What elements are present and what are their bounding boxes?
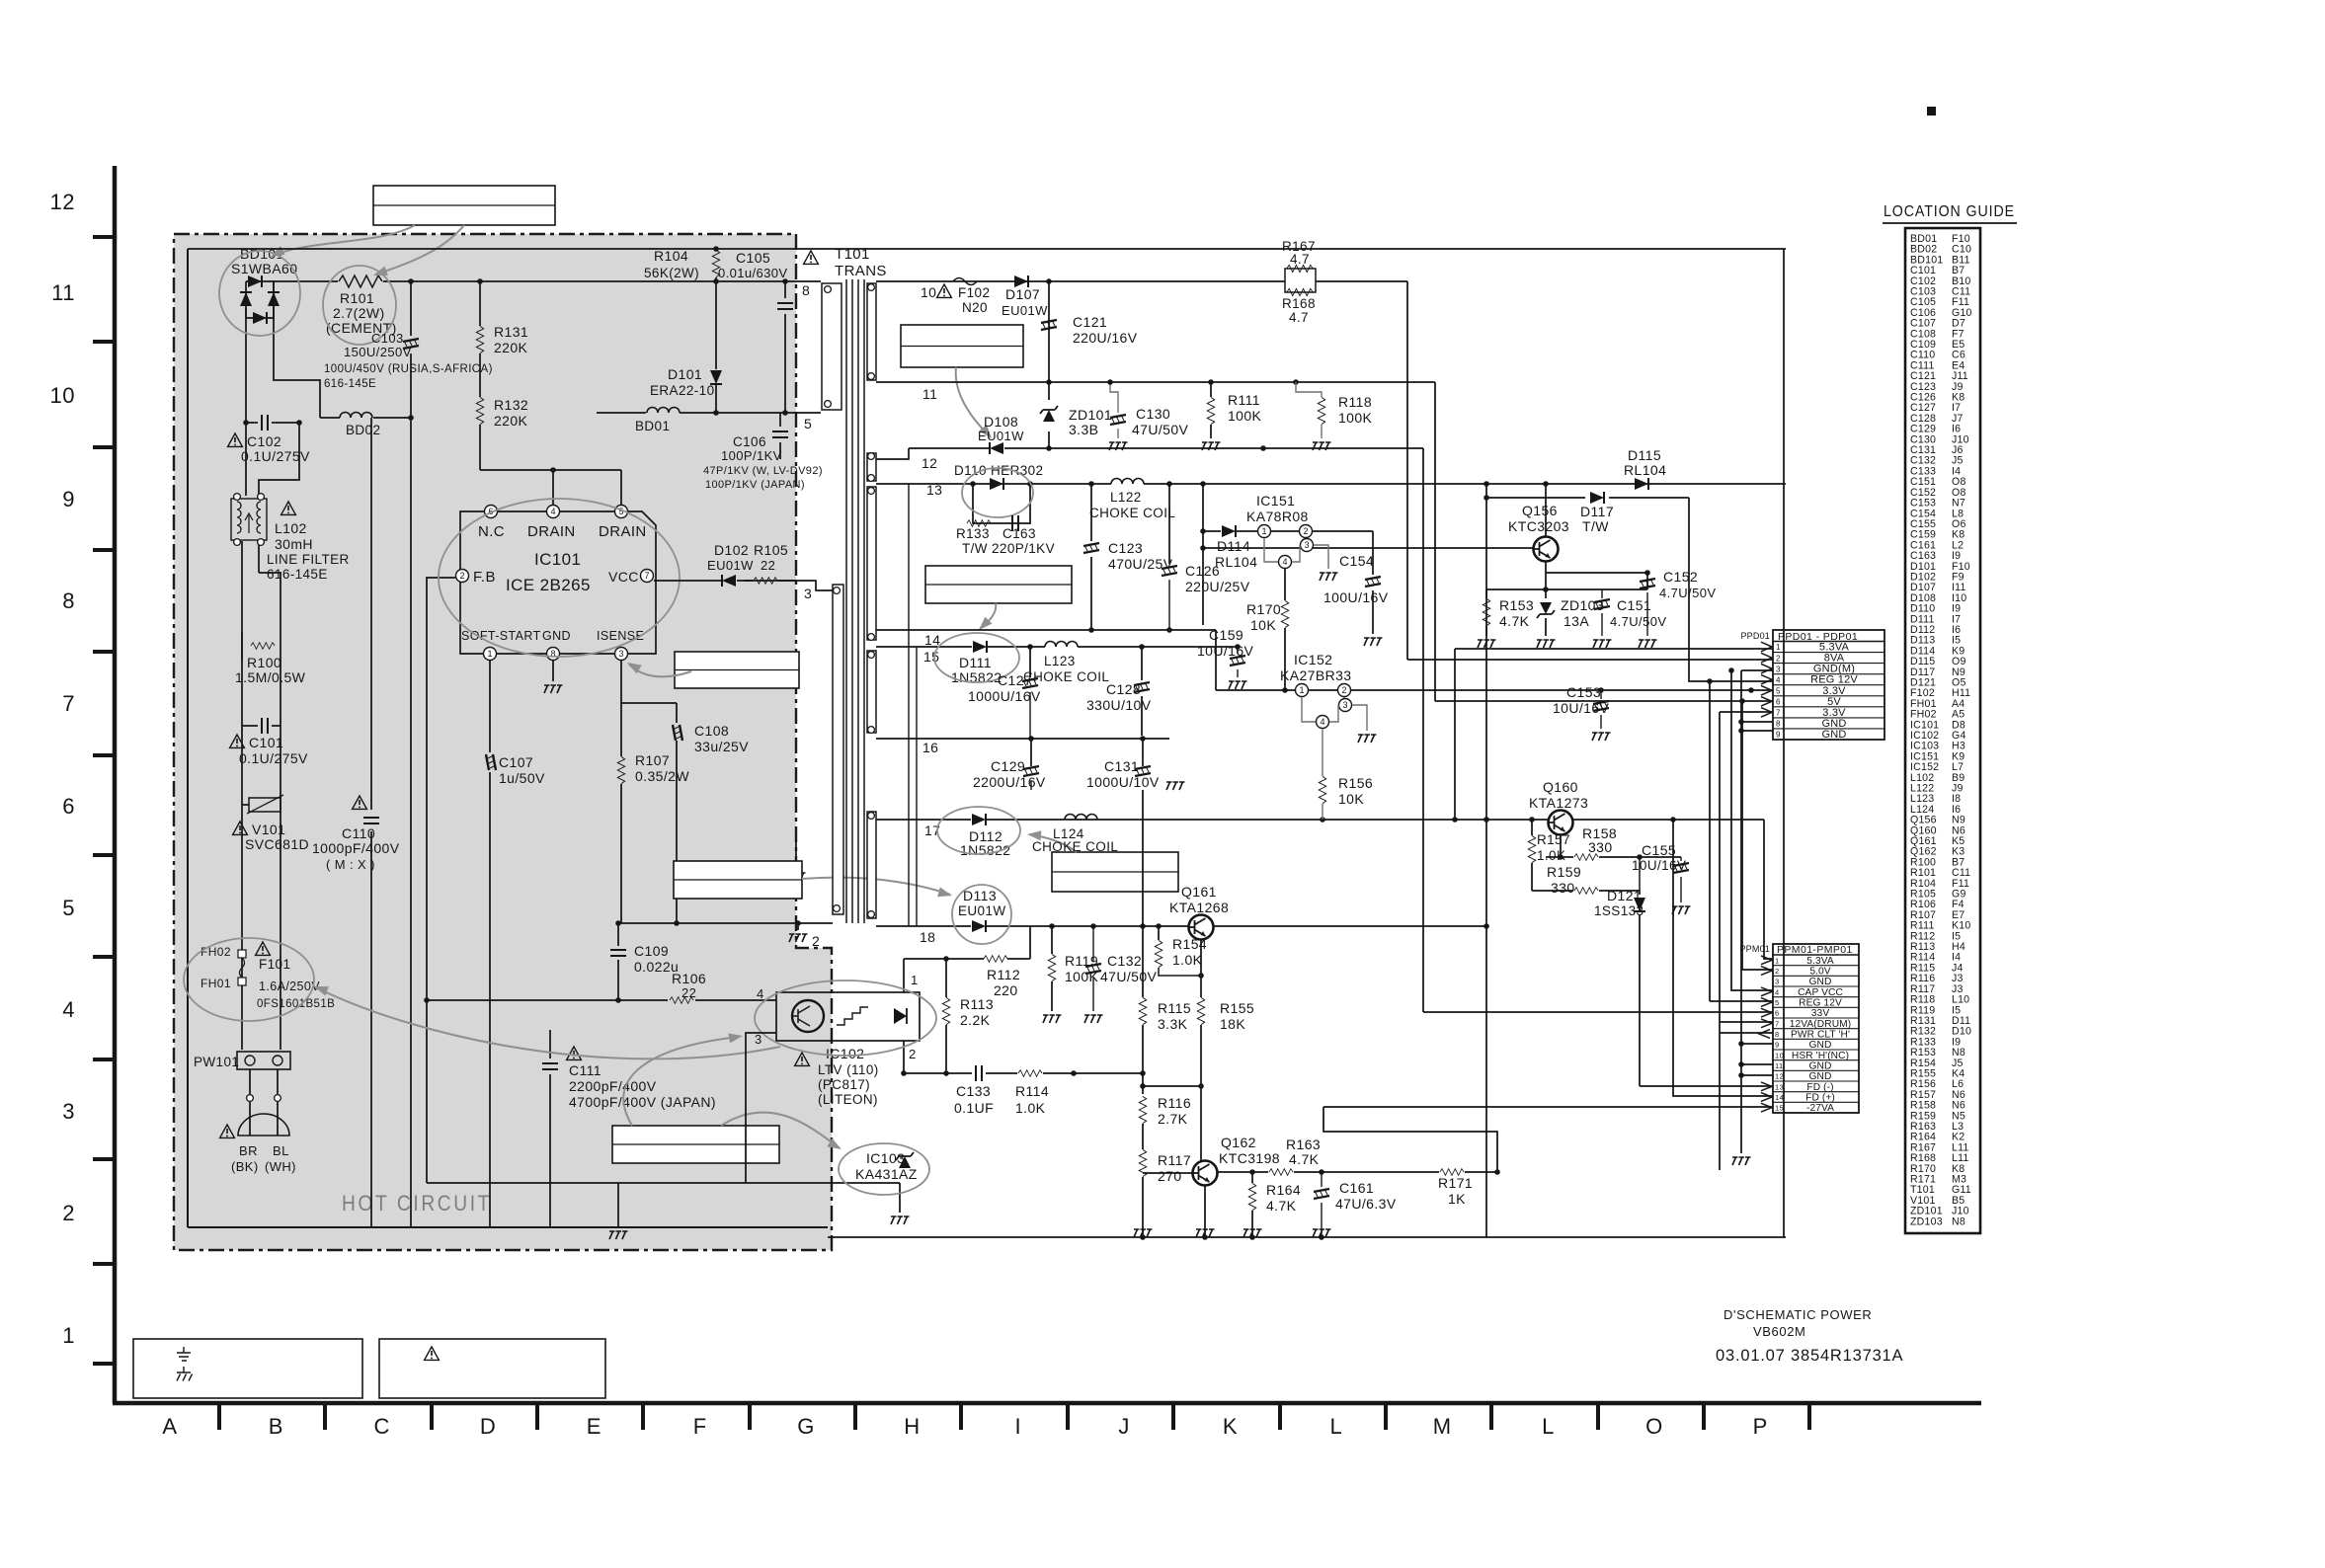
svg-text:B: B [269, 1414, 283, 1439]
svg-text:3: 3 [1304, 540, 1309, 550]
svg-text:R105: R105 [754, 542, 788, 558]
svg-text:C107: C107 [499, 754, 533, 770]
svg-text:D111: D111 [959, 655, 992, 670]
zener ZD101 [1040, 406, 1112, 437]
svg-text:V101: V101 [252, 822, 285, 837]
svg-text:VB602M: VB602M [1753, 1324, 1805, 1339]
svg-text:1K: 1K [1448, 1191, 1466, 1207]
transformer pin numbers right [920, 284, 942, 945]
svg-text:7: 7 [1775, 1019, 1780, 1028]
svg-text:5.3VA: 5.3VA [1806, 956, 1834, 967]
svg-text:2: 2 [1341, 685, 1346, 695]
wire: vertical x1441 [1422, 448, 1424, 1012]
svg-text:33u/25V: 33u/25V [694, 739, 749, 754]
svg-text:IC151: IC151 [1256, 493, 1295, 509]
svg-text:R111: R111 [1228, 392, 1260, 408]
svg-text:1: 1 [1299, 685, 1304, 695]
capacitor C126 [1162, 563, 1250, 630]
wire: Q156 base wire [1200, 545, 1533, 551]
capacitor C103 [324, 331, 493, 390]
resistor R118 [1296, 382, 1373, 450]
capacitor C101 [230, 718, 308, 766]
svg-text:BR: BR [239, 1143, 258, 1158]
wire: drain feed y476 [480, 467, 621, 505]
highlight ellipse BD101 [219, 251, 300, 336]
svg-text:R117: R117 [1158, 1152, 1191, 1168]
svg-text:L102: L102 [275, 520, 307, 536]
svg-text:2.2K: 2.2K [960, 1012, 991, 1028]
svg-text:CHOKE COIL: CHOKE COIL [1023, 669, 1109, 684]
resistor R131 [476, 281, 528, 397]
wire: PPD01 pin7 [1720, 712, 1773, 1170]
connector PPD01 rows [1773, 642, 1884, 741]
svg-text:F: F [693, 1414, 707, 1439]
IC103 shunt regulator [427, 1150, 918, 1224]
capacitor C105 [718, 250, 793, 413]
wire: y1100 link [1143, 1083, 1204, 1089]
svg-text:PPD01: PPD01 [1740, 631, 1770, 641]
highlight ellipse IC101 [439, 499, 680, 657]
diode D110 [954, 463, 1043, 490]
wire: top rail y252 [188, 248, 1786, 250]
svg-text:220U/16V: 220U/16V [1073, 330, 1138, 346]
svg-text:HSR 'H'(NC): HSR 'H'(NC) [1792, 1051, 1849, 1061]
svg-text:C: C [374, 1414, 390, 1439]
svg-text:3: 3 [755, 1032, 762, 1047]
svg-text:ZD101: ZD101 [1069, 407, 1112, 423]
wire: R159 branch [1532, 854, 1643, 891]
capacitor C110 [312, 796, 400, 872]
capacitor C163 [992, 515, 1055, 556]
connector PPM01-PMP01 [1739, 944, 1859, 1113]
diode D115 [1624, 447, 1666, 490]
svg-text:3: 3 [62, 1099, 75, 1124]
resistor R114 [1015, 1070, 1049, 1116]
wire: IC152 input wire y699 [1216, 687, 1773, 693]
wire: pin13 rail y490 [876, 481, 1786, 487]
svg-text:220U/25V: 220U/25V [1185, 579, 1250, 594]
svg-text:D113: D113 [963, 888, 997, 903]
svg-text:7: 7 [62, 691, 75, 716]
wire: PPM01 pin4 [1728, 667, 1773, 990]
svg-text:4.7U/50V: 4.7U/50V [1610, 614, 1666, 629]
svg-text:11: 11 [1775, 1061, 1784, 1070]
resistor R156 [1319, 729, 1373, 820]
svg-text:8: 8 [802, 282, 810, 298]
resistor R171 [1438, 1169, 1473, 1207]
jumper BD01 [635, 408, 680, 434]
svg-text:PPM01: PPM01 [1739, 944, 1770, 954]
capacitor C151 [1593, 589, 1666, 648]
gray arrow to D112 [1029, 834, 1077, 852]
svg-text:4: 4 [1775, 987, 1780, 996]
svg-text:15: 15 [1775, 1104, 1784, 1113]
wire: vertical x1473 [1454, 649, 1456, 820]
svg-text:( M : X ): ( M : X ) [326, 857, 375, 872]
wire: PPM01 pin6 33V [1423, 1011, 1773, 1013]
svg-text:L122: L122 [1110, 490, 1142, 505]
wire: hot bottom stubs [795, 839, 797, 869]
wire: pin16 rail y748 [876, 736, 1169, 742]
legend box 1 [133, 1339, 362, 1398]
wire: bottom rail y1253 [828, 1234, 1786, 1240]
svg-text:4.7K: 4.7K [1499, 613, 1530, 629]
capacitor C111 [542, 1030, 716, 1227]
svg-text:R131: R131 [494, 324, 528, 340]
connector PPD01 arrows [1761, 642, 1772, 717]
wire: pin11 rail y387 [876, 379, 1435, 385]
svg-text:8: 8 [62, 588, 75, 613]
svg-text:5.0V: 5.0V [1809, 967, 1830, 978]
svg-text:1: 1 [911, 973, 919, 987]
svg-text:R112: R112 [987, 967, 1020, 982]
svg-text:5: 5 [618, 507, 623, 516]
wire: pin10 rail y285 right [876, 278, 1407, 284]
zener ZD103 [1537, 589, 1604, 648]
svg-text:L: L [1329, 1414, 1342, 1439]
svg-text:R164: R164 [1266, 1182, 1301, 1198]
svg-text:C108: C108 [694, 723, 729, 739]
svg-text:220P/1KV: 220P/1KV [992, 541, 1055, 556]
svg-text:GND: GND [1809, 1071, 1832, 1082]
svg-text:D121: D121 [1607, 888, 1642, 903]
svg-text:R153: R153 [1499, 597, 1534, 613]
svg-text:GND: GND [1809, 977, 1832, 987]
wire: primary pin3 wire [796, 581, 833, 590]
svg-text:3: 3 [804, 586, 812, 601]
svg-text:47U/6.3V: 47U/6.3V [1335, 1196, 1397, 1212]
svg-text:220K: 220K [494, 340, 528, 355]
hot circuit inner border [188, 249, 828, 1227]
bridge rectifier BD101 [231, 246, 297, 324]
svg-text:N.C: N.C [478, 523, 505, 540]
capacitor C155 [1632, 842, 1691, 914]
wire: FB column x432 [424, 578, 455, 1183]
svg-text:KA78R08: KA78R08 [1246, 509, 1309, 524]
resistor R170 [1246, 569, 1289, 690]
svg-text:15: 15 [923, 649, 939, 665]
wire: vertical x1505 [1483, 484, 1489, 1237]
svg-text:LOCATION GUIDE: LOCATION GUIDE [1884, 203, 2015, 220]
fuse F101 [200, 942, 335, 1010]
transistor Q161 [1169, 884, 1229, 940]
svg-text:LTV (110): LTV (110) [818, 1062, 879, 1077]
svg-text:270: 270 [1158, 1168, 1182, 1184]
ground under IC101 gnd pin [544, 685, 563, 693]
svg-text:4.7K: 4.7K [1289, 1151, 1320, 1167]
frame: row ticks [93, 237, 113, 1364]
IC IC151 KA78R08 [1246, 493, 1338, 581]
svg-text:10: 10 [1775, 1051, 1784, 1059]
capacitor C109 [610, 920, 679, 1000]
svg-text:(LITEON): (LITEON) [818, 1092, 878, 1107]
svg-text:4.7K: 4.7K [1266, 1198, 1297, 1214]
svg-text:ZD103: ZD103 [1910, 1215, 1943, 1227]
jumper BD02 [340, 413, 380, 437]
wire: R115 column x1157 [1140, 790, 1146, 1237]
wire: opto feedback y971 [904, 926, 1030, 992]
svg-text:P: P [1753, 1414, 1768, 1439]
page mark square [1927, 107, 1936, 116]
svg-text:9: 9 [1776, 731, 1781, 740]
svg-text:0.1U/275V: 0.1U/275V [239, 750, 308, 766]
svg-text:C153: C153 [1566, 684, 1601, 700]
svg-text:IC102: IC102 [826, 1046, 864, 1061]
capacitor C131 [1086, 758, 1160, 790]
wire: REG12V vertical x1731 [1709, 681, 1711, 1001]
svg-text:3: 3 [1775, 978, 1780, 986]
svg-text:330: 330 [1588, 839, 1613, 855]
wire: C103 column x416 [408, 281, 414, 1227]
hot circuit gray region [174, 234, 832, 1250]
svg-text:33V: 33V [1811, 1008, 1830, 1019]
svg-text:10U/16V: 10U/16V [1553, 700, 1610, 716]
resistor R113 [942, 959, 994, 1073]
wire: y1187 R163 R171 rail [1217, 1107, 1500, 1175]
gray arrow to IC102 [623, 1037, 739, 1126]
svg-text:4.7U/50V: 4.7U/50V [1659, 586, 1716, 600]
resistor R101 [326, 275, 397, 336]
svg-text:EU01W: EU01W [1002, 303, 1048, 318]
wire: D110 loop R133 C163 [970, 481, 1033, 523]
svg-text:R106: R106 [672, 971, 706, 986]
svg-text:D108: D108 [984, 414, 1018, 430]
transformer secondary windings [867, 283, 876, 918]
resistor R117 [1139, 1149, 1191, 1184]
svg-text:4: 4 [1320, 717, 1324, 727]
resistor R163 [1269, 1137, 1321, 1175]
resistor R116 [1139, 1095, 1191, 1127]
wire: bridge right leg [274, 308, 320, 418]
diode D117 [1580, 492, 1614, 534]
wire: C102 rung [243, 420, 302, 426]
gray arrow to BD101 [273, 225, 415, 256]
svg-text:EU01W: EU01W [707, 558, 754, 573]
svg-text:4: 4 [1776, 675, 1781, 684]
svg-text:1000U/16V: 1000U/16V [968, 688, 1041, 704]
svg-text:R157: R157 [1537, 832, 1570, 847]
IC IC101 ICE 2B265 [456, 506, 657, 661]
svg-text:BL: BL [273, 1143, 289, 1158]
capacitor C129 [973, 758, 1046, 790]
svg-text:1.5M/0.5W: 1.5M/0.5W [235, 669, 306, 685]
wire: C133 R114 wire y1087 [901, 1041, 1146, 1076]
highlight ellipse IC103 [839, 1143, 929, 1195]
svg-text:M: M [1433, 1414, 1452, 1439]
svg-text:C101: C101 [249, 735, 283, 750]
svg-text:4700pF/400V (JAPAN): 4700pF/400V (JAPAN) [569, 1094, 716, 1110]
wire: C110 column x376 [370, 418, 372, 1227]
svg-text:(PC817): (PC817) [818, 1077, 870, 1092]
svg-text:47P/1KV (W, LV-DV92): 47P/1KV (W, LV-DV92) [703, 465, 823, 477]
svg-text:C130: C130 [1136, 406, 1170, 422]
transformer primary winding 8-5 [802, 282, 842, 431]
svg-text:IC103: IC103 [866, 1150, 905, 1166]
svg-text:C121: C121 [1073, 314, 1107, 330]
svg-text:100K: 100K [1228, 408, 1262, 424]
svg-text:2200pF/400V: 2200pF/400V [569, 1078, 657, 1094]
connector PPM01 arrows [1759, 956, 1772, 1112]
svg-text:N20: N20 [962, 300, 988, 315]
svg-text:4: 4 [757, 986, 764, 1001]
svg-text:LINE FILTER: LINE FILTER [267, 552, 350, 567]
svg-text:R116: R116 [1158, 1095, 1191, 1111]
svg-text:4: 4 [1282, 557, 1287, 567]
svg-text:F101: F101 [259, 957, 290, 972]
diode D107 [1002, 275, 1048, 318]
svg-text:100P/1KV: 100P/1KV [721, 448, 782, 463]
wire: vertical x1453 [1434, 382, 1436, 701]
svg-text:C154: C154 [1339, 553, 1374, 569]
svg-text:11: 11 [922, 386, 937, 402]
svg-text:150U/250V: 150U/250V [344, 345, 412, 359]
wire: IC102 pin3 down [746, 1033, 776, 1183]
svg-text:14: 14 [924, 632, 940, 648]
svg-text:KTC3203: KTC3203 [1508, 518, 1569, 534]
svg-text:1SS133: 1SS133 [1594, 903, 1644, 918]
resistor R111 [1202, 382, 1262, 450]
svg-text:DRAIN: DRAIN [527, 523, 576, 540]
svg-text:6: 6 [1775, 1009, 1780, 1018]
svg-text:2: 2 [459, 571, 464, 581]
svg-text:RL104: RL104 [1215, 554, 1257, 570]
svg-text:5: 5 [1775, 998, 1780, 1007]
svg-text:REG 12V: REG 12V [1799, 998, 1842, 1009]
capacitor C127 [968, 672, 1041, 739]
diode D101 [650, 366, 722, 413]
capacitor C159 [1197, 627, 1254, 689]
svg-text:5: 5 [804, 416, 812, 431]
svg-text:1: 1 [1776, 643, 1781, 652]
svg-text:L: L [1542, 1414, 1555, 1439]
legend box 2 [379, 1339, 605, 1398]
svg-text:C132: C132 [1107, 953, 1142, 969]
diode D108 [978, 414, 1024, 454]
resistor R153 [1478, 589, 1534, 648]
wire: vertical x1710 to REG12V [1689, 498, 1773, 684]
IC102 optocoupler [755, 973, 920, 1107]
highlight ellipse D111 [934, 633, 1019, 682]
svg-text:C127: C127 [998, 672, 1032, 688]
inductor L122 [1089, 479, 1175, 521]
wire: Q162 base wire [1143, 1172, 1193, 1174]
svg-text:10K: 10K [1338, 791, 1364, 807]
wire: pin18 rail y938 [876, 923, 1489, 929]
svg-text:R114: R114 [1015, 1083, 1049, 1099]
callout box L124 [1052, 852, 1178, 892]
wire: secondary loop verticals [909, 484, 917, 926]
resistor R154 [1155, 926, 1207, 976]
wire: PPM01 pin7 [1720, 1021, 1773, 1023]
svg-text:I: I [1014, 1414, 1021, 1439]
callout box bottom [612, 1126, 779, 1163]
svg-text:5: 5 [62, 896, 75, 920]
resistor R133 [956, 520, 991, 556]
diode D102 [654, 542, 796, 587]
resistor R115 [1139, 997, 1191, 1032]
svg-text:L123: L123 [1044, 654, 1076, 668]
svg-text:C131: C131 [1104, 758, 1139, 774]
svg-text:C128: C128 [1106, 681, 1141, 697]
svg-text:2: 2 [812, 933, 820, 949]
svg-text:GND: GND [1809, 1040, 1832, 1051]
svg-text:KA431AZ: KA431AZ [855, 1166, 918, 1182]
svg-text:N8: N8 [1952, 1215, 1965, 1227]
svg-text:T/W: T/W [962, 541, 988, 556]
svg-text:VCC: VCC [608, 569, 639, 585]
wire: C126 column x1184 [1168, 484, 1170, 564]
svg-text:C105: C105 [736, 250, 770, 266]
svg-text:ISENSE: ISENSE [597, 629, 644, 643]
svg-text:3: 3 [1776, 665, 1781, 673]
svg-text:3: 3 [1342, 700, 1347, 710]
wire: pin12 stub [876, 448, 909, 459]
svg-text:FD (+): FD (+) [1805, 1093, 1835, 1104]
svg-text:47U/50V: 47U/50V [1100, 969, 1158, 984]
svg-text:12VA(DRUM): 12VA(DRUM) [1790, 1019, 1852, 1030]
title block text [1716, 1307, 1903, 1365]
svg-text:1000U/10V: 1000U/10V [1086, 774, 1160, 790]
svg-text:K: K [1223, 1414, 1238, 1439]
svg-text:22: 22 [681, 985, 696, 1000]
svg-text:100U/450V (RUSIA,S-AFRICA): 100U/450V (RUSIA,S-AFRICA) [324, 363, 493, 375]
svg-text:1000pF/400V: 1000pF/400V [312, 840, 400, 856]
svg-text:C152: C152 [1663, 569, 1698, 585]
svg-text:CAP VCC: CAP VCC [1798, 987, 1843, 998]
svg-text:D: D [480, 1414, 496, 1439]
svg-text:F.B: F.B [473, 569, 496, 586]
wire: ZD101/C121 column x1062 [1048, 281, 1050, 448]
highlight ellipse IC102 [755, 980, 936, 1056]
wire: IC101 pin stubs [490, 660, 677, 1227]
wire: IC102 pin2 down [0, 0, 1, 1]
svg-text:6: 6 [1776, 698, 1781, 707]
wire: primary pin2 wire [618, 920, 833, 926]
wire: rail y418 to pin5 [597, 410, 821, 416]
svg-text:30mH: 30mH [275, 536, 313, 552]
svg-text:C151: C151 [1617, 597, 1651, 613]
svg-text:E: E [587, 1414, 601, 1439]
svg-text:1.0K: 1.0K [1015, 1100, 1046, 1116]
resistor R100 [235, 632, 306, 685]
svg-text:7: 7 [644, 571, 649, 581]
callout box mid 2 [674, 861, 802, 899]
svg-text:R113: R113 [960, 996, 994, 1012]
svg-text:100K: 100K [1338, 410, 1373, 426]
mains plug [220, 1114, 296, 1174]
svg-text:100U/16V: 100U/16V [1323, 589, 1389, 605]
resistor R105 [744, 542, 796, 584]
resistor R159 [1547, 864, 1598, 896]
wire: C128 column [1141, 647, 1143, 680]
svg-text:C161: C161 [1339, 1180, 1374, 1196]
capacitor C154 [1323, 553, 1389, 605]
svg-text:330U/10V: 330U/10V [1086, 697, 1152, 713]
svg-text:D107: D107 [1005, 286, 1040, 302]
wire: PPD01 pin2 8VA [1407, 659, 1773, 661]
svg-text:IC101: IC101 [534, 550, 581, 569]
frame: column ticks [219, 1405, 1809, 1430]
svg-text:ERA22-10: ERA22-10 [650, 383, 715, 398]
svg-text:3: 3 [618, 649, 623, 659]
svg-text:18: 18 [920, 929, 935, 945]
resistor R106 [427, 971, 776, 1003]
svg-text:Q160: Q160 [1543, 779, 1578, 795]
wire: D114 wire y538 [1200, 484, 1373, 625]
wire: PPM01 pin14 FD+ [1673, 820, 1773, 1096]
svg-text:H: H [904, 1414, 920, 1439]
svg-text:GND: GND [1821, 729, 1846, 741]
